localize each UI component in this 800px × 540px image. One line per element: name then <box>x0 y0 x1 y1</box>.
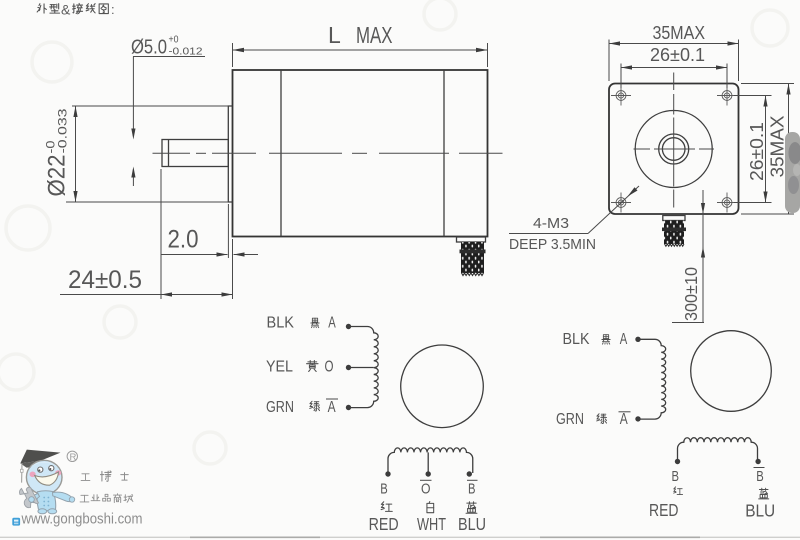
svg-text:+0: +0 <box>169 35 179 46</box>
label YEL 黄 O <box>266 358 334 375</box>
winding coil B right (horizontal) <box>677 438 757 461</box>
node dot A right <box>635 337 640 342</box>
svg-text:RED: RED <box>369 514 399 534</box>
svg-text:L: L <box>328 22 341 48</box>
left arm <box>30 494 40 503</box>
front plate <box>609 84 739 215</box>
svg-text:300±10: 300±10 <box>681 267 701 321</box>
svg-text:35MAX: 35MAX <box>653 22 706 43</box>
body section line left <box>280 70 282 237</box>
2.0 dimension <box>162 204 259 258</box>
svg-text:MAX: MAX <box>356 22 393 48</box>
svg-text:A: A <box>620 331 628 348</box>
svg-text:www.gongboshi.com: www.gongboshi.com <box>21 512 143 528</box>
screw hole BL <box>611 193 631 213</box>
winding coil A (vertical) <box>349 327 379 408</box>
mortarboard cap <box>20 450 60 464</box>
svg-text:B: B <box>672 468 680 485</box>
winding coil A right (vertical) <box>638 339 666 419</box>
cheeks <box>29 472 35 478</box>
button dots <box>43 497 45 499</box>
label GRN 绿 A-bar right <box>556 411 631 428</box>
terminal B wire <box>385 471 390 476</box>
svg-text::: : <box>111 2 115 17</box>
registered mark <box>67 451 77 461</box>
label GRN 绿 A-bar <box>266 399 338 416</box>
svg-text:GRN: GRN <box>556 411 584 428</box>
svg-text:B: B <box>380 481 388 498</box>
shaft circle inner <box>662 138 685 161</box>
svg-text:B: B <box>756 468 764 485</box>
svg-text:A: A <box>328 399 337 416</box>
motor body <box>233 70 488 237</box>
4-M3 DEEP 3.5MIN leader <box>509 186 639 253</box>
svg-text:&: & <box>61 2 71 18</box>
svg-text:BLU: BLU <box>745 501 775 521</box>
工业品商城 text <box>80 494 133 503</box>
26+-0.1 right dimension <box>734 96 772 203</box>
svg-text:4-M3: 4-M3 <box>533 215 569 232</box>
side cable collar <box>457 237 486 242</box>
svg-text:O: O <box>325 358 334 375</box>
svg-text:2.0: 2.0 <box>168 226 199 254</box>
工博士 text <box>81 471 128 481</box>
svg-text:A: A <box>328 315 336 332</box>
hand on wrench <box>29 497 35 503</box>
body section line right <box>443 70 445 237</box>
bottom table edge line <box>0 536 800 538</box>
terminal B right <box>675 459 680 464</box>
dia 22 dimension <box>44 106 229 202</box>
screw hole TL <box>611 86 631 106</box>
label BLK 黑 A <box>563 331 628 348</box>
node dot A-bar right <box>635 416 640 421</box>
svg-text:A: A <box>620 411 629 428</box>
node dot O <box>346 365 351 370</box>
crosshair vertical <box>673 73 675 208</box>
svg-text:24±0.5: 24±0.5 <box>68 266 142 294</box>
node dot A-bar <box>346 405 351 410</box>
24+-0.5 dimension <box>60 169 233 299</box>
body <box>37 491 56 511</box>
svg-text:BLK: BLK <box>563 331 591 348</box>
chinese 红 白 蓝 <box>381 502 477 514</box>
crosshair horizontal <box>634 148 715 150</box>
eyes <box>38 467 43 472</box>
svg-text:BLU: BLU <box>458 514 486 534</box>
shaft <box>162 140 228 167</box>
front cable braid <box>664 221 684 245</box>
svg-text:YEL: YEL <box>266 359 293 376</box>
front cable collar <box>663 216 685 221</box>
terminal B-bar right <box>755 459 760 464</box>
svg-text:26±0.1: 26±0.1 <box>650 44 705 65</box>
svg-text:O: O <box>421 481 431 498</box>
motor circle right <box>691 331 772 412</box>
terminal O wire <box>427 452 429 472</box>
dia 5.0 dimension <box>131 35 205 187</box>
tassel <box>21 463 23 482</box>
node dot A <box>346 324 351 329</box>
svg-text:RED: RED <box>649 500 679 520</box>
shaft circle outer <box>659 134 689 164</box>
L MAX dimension <box>233 22 488 67</box>
svg-text:Ø22: Ø22 <box>44 155 71 197</box>
svg-text:BLK: BLK <box>267 315 295 332</box>
mouth <box>35 472 59 485</box>
motor circle left <box>401 345 484 428</box>
pilot boss <box>228 106 232 202</box>
screw hole TR <box>717 86 737 106</box>
head <box>26 460 62 494</box>
svg-text:B: B <box>468 481 476 498</box>
300+-10 dimension <box>672 190 705 323</box>
winding coil B (horizontal) <box>388 448 473 473</box>
right arm <box>53 492 75 502</box>
svg-text:DEEP 3.5MIN: DEEP 3.5MIN <box>509 236 596 253</box>
side cable braid <box>461 242 484 273</box>
svg-text:35MAX: 35MAX <box>767 116 788 178</box>
small blue site icon <box>12 518 20 526</box>
svg-text:26±0.1: 26±0.1 <box>746 122 767 181</box>
feet <box>38 509 47 514</box>
screw hole BR <box>717 193 737 213</box>
title 外型&接线图: <box>37 3 108 13</box>
LOGO (bottom-left watermark) <box>12 450 142 528</box>
svg-text:R: R <box>70 452 77 463</box>
chinese 红 蓝 right <box>674 487 769 499</box>
wrench <box>20 487 39 507</box>
shaft chamfer line <box>168 140 170 167</box>
35MAX top dimension <box>609 22 739 81</box>
26+-0.1 top dimension <box>621 44 727 88</box>
svg-text:-0.033: -0.033 <box>56 108 70 153</box>
svg-text:Ø5.0: Ø5.0 <box>131 37 167 59</box>
pilot circle <box>635 111 712 188</box>
label BLK 黑 A <box>267 315 337 332</box>
wire O <box>349 367 374 369</box>
right edge watermark blob <box>785 132 800 213</box>
centerline <box>153 152 503 154</box>
svg-text:GRN: GRN <box>266 399 294 416</box>
svg-text:-0.012: -0.012 <box>169 47 204 58</box>
svg-text:WHT: WHT <box>417 514 446 534</box>
35MAX right dimension <box>741 84 794 215</box>
terminal B-bar wire <box>467 471 472 476</box>
